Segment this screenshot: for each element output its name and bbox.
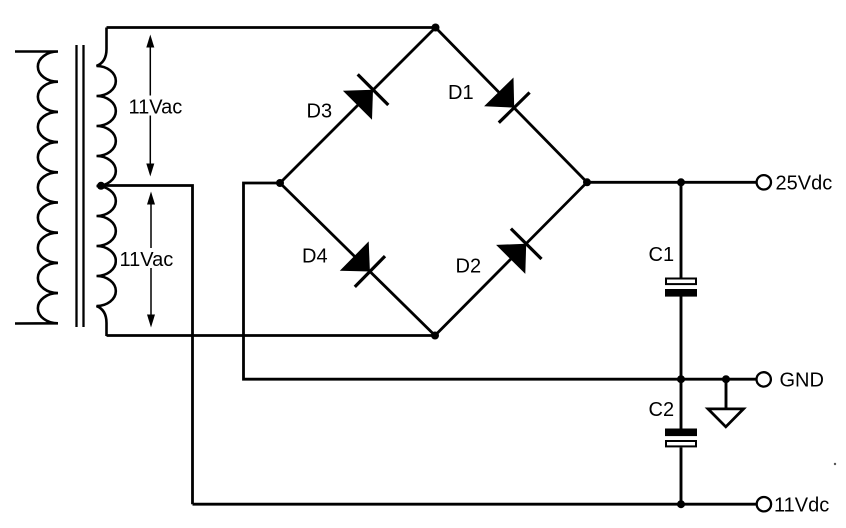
capacitor C1 <box>665 182 697 379</box>
node: bridge right junction <box>583 178 591 186</box>
svg-text:D4: D4 <box>302 246 328 268</box>
label: upper 11Vac <box>126 96 186 119</box>
svg-text:D1: D1 <box>448 82 474 104</box>
svg-text:D2: D2 <box>456 256 482 278</box>
node: C1/C2 GND junction <box>677 375 685 383</box>
diode D1 <box>484 78 529 123</box>
transformer T1 secondary winding <box>97 28 116 337</box>
terminal: 25Vdc output <box>757 175 771 189</box>
svg-text:11Vac: 11Vac <box>129 97 183 119</box>
node: bridge top junction <box>432 24 440 32</box>
wire: secondary top to bridge top node <box>107 26 436 29</box>
transformer T1 primary winding <box>15 52 58 324</box>
wire: secondary bottom to bridge bottom node <box>107 334 436 337</box>
node: transformer center tap <box>97 182 105 190</box>
node: bridge bottom junction <box>431 332 439 340</box>
svg-text:C2: C2 <box>649 399 675 421</box>
diode D4 <box>340 241 385 287</box>
svg-text:GND: GND <box>780 370 824 392</box>
diode bridge arms (wires) <box>280 28 587 336</box>
svg-text:D3: D3 <box>307 101 333 123</box>
stray mark (speck in source image) <box>834 463 836 465</box>
diode D2 <box>496 229 541 274</box>
svg-text:11Vdc: 11Vdc <box>774 495 829 517</box>
label: lower 11Vac <box>117 248 177 271</box>
terminal: GND output <box>757 372 771 386</box>
wire: center tap to 11Vdc rail <box>101 186 193 505</box>
dimension arrow: lower 11Vac winding <box>150 201 152 318</box>
node: bridge left junction <box>276 179 284 187</box>
node: C2 bottom junction <box>677 500 685 508</box>
svg-text:11Vac: 11Vac <box>120 249 174 271</box>
node: C1 top junction <box>677 178 685 186</box>
ground symbol <box>708 379 744 427</box>
wire: 11Vdc bottom rail <box>193 503 757 506</box>
svg-text:25Vdc: 25Vdc <box>776 173 833 195</box>
terminal: 11Vdc output <box>757 497 771 511</box>
diode D3 <box>343 74 388 119</box>
dimension arrow: upper 11Vac winding <box>149 44 151 167</box>
svg-text:C1: C1 <box>649 244 675 266</box>
node: ground symbol junction <box>722 375 730 383</box>
capacitor C2 <box>665 379 697 504</box>
transformer T1 core <box>77 45 84 327</box>
wire: bridge left node to GND rail <box>244 183 757 379</box>
wire: bridge right node to 25Vdc terminal <box>587 181 757 184</box>
